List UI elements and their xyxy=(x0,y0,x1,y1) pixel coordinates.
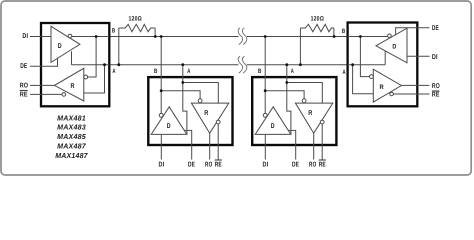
wire DE input U2 xyxy=(184,130,191,159)
border frame xyxy=(1,1,471,175)
wire U4 A to receiver input xyxy=(353,65,374,94)
pin label RO U3 xyxy=(309,161,317,168)
net label A at U4 xyxy=(343,69,346,76)
svg-text:D: D xyxy=(271,123,275,130)
wire DI input U3 xyxy=(264,134,266,159)
wire U2 B branch to receiver xyxy=(161,91,200,99)
wire DI input U2 xyxy=(160,134,162,159)
receiver R triangle U1 xyxy=(55,68,84,101)
svg-text:MAX483: MAX483 xyxy=(57,123,86,132)
svg-text:DI: DI xyxy=(263,161,269,168)
receiver B input bubble U2 xyxy=(198,99,202,103)
net label B at U3 xyxy=(258,68,262,75)
svg-text:R: R xyxy=(308,110,312,117)
node dot U2 A branch xyxy=(181,81,184,84)
transceiver U3 block outline xyxy=(252,77,336,145)
wire U1 B to receiver input xyxy=(88,37,97,78)
receiver B input bubble U3 xyxy=(302,99,306,103)
receiver B input bubble U1 xyxy=(84,75,88,79)
pin label DE U2 xyxy=(188,161,195,168)
cable break squiggle on A bus xyxy=(238,56,247,73)
svg-text:DE: DE xyxy=(432,25,439,32)
receiver enable bubble U1 xyxy=(62,93,66,97)
node dot U3 A branch xyxy=(285,81,288,84)
node dot R1 at B bus xyxy=(154,35,157,38)
driver B output bubble U2 xyxy=(159,113,163,117)
wire RO output U1 xyxy=(30,84,55,86)
driver D label U3 xyxy=(271,123,275,130)
wire U4 A input from bus xyxy=(348,64,386,66)
node dot U2 B branch xyxy=(160,89,163,92)
net label B at U1 xyxy=(112,28,116,35)
wire U1 driver A output drop xyxy=(72,51,110,64)
driver D label U4 xyxy=(392,43,396,50)
node dot U3 B branch xyxy=(264,89,267,92)
wire U2 B drop from bus xyxy=(160,37,162,114)
wire U3 B branch to receiver xyxy=(265,91,304,99)
pin label DI U3 xyxy=(263,161,269,168)
wire RE input U2 xyxy=(217,124,219,160)
svg-text:RO: RO xyxy=(20,83,29,90)
receiver enable bubble U4 xyxy=(390,92,394,96)
resistor R2 120 ohm zigzag body xyxy=(300,24,334,31)
wire U1 driver B output xyxy=(72,36,110,38)
wire U2 A branch to receiver xyxy=(183,83,219,104)
wire B bus right segment xyxy=(247,36,348,38)
resistor R1 right stub to B bus xyxy=(154,28,156,36)
resistor R1 120 ohm zigzag body xyxy=(119,24,155,31)
receiver R triangle U4 xyxy=(373,69,401,102)
svg-text:RE: RE xyxy=(20,91,28,98)
pin label RO U1 xyxy=(20,83,29,90)
wire U4 B to receiver input xyxy=(360,37,370,77)
R1 value label 120 ohm xyxy=(129,16,142,23)
svg-text:R: R xyxy=(71,83,75,90)
node dot U2 A at bus xyxy=(181,63,184,66)
resistor R2 right stub to B bus xyxy=(333,28,335,36)
svg-text:DE: DE xyxy=(20,63,27,70)
pin label RO U2 xyxy=(205,161,213,168)
svg-text:DI: DI xyxy=(432,54,438,61)
pin label DI U1 xyxy=(22,33,28,40)
driver output bubble U4 xyxy=(388,34,392,38)
driver B output bubble U3 xyxy=(263,113,267,117)
svg-text:MAX487: MAX487 xyxy=(57,142,87,151)
pin label DE U3 xyxy=(292,161,299,168)
svg-text:DI: DI xyxy=(22,33,28,40)
svg-text:B: B xyxy=(154,68,158,75)
svg-text:RE: RE xyxy=(215,161,222,168)
svg-text:MAX1487: MAX1487 xyxy=(55,151,88,160)
R2 value label 120 ohm xyxy=(311,16,324,23)
pin label RE U3 with overline xyxy=(319,160,326,168)
receiver R label U1 xyxy=(71,83,75,90)
svg-text:D: D xyxy=(392,43,396,50)
svg-text:120Ω: 120Ω xyxy=(129,16,142,23)
transceiver U2 block outline xyxy=(148,77,232,145)
part number list MAX481 MAX483 MAX485 MAX487 MAX1487 xyxy=(55,114,88,160)
wire DI input U1 xyxy=(30,36,51,38)
pin label DE U1 xyxy=(20,63,27,70)
pin label RE U4 with overline xyxy=(432,91,440,99)
svg-text:A: A xyxy=(112,68,115,75)
wire A bus right segment xyxy=(247,64,348,66)
svg-text:MAX485: MAX485 xyxy=(57,132,87,141)
wire RO output U2 xyxy=(209,133,211,159)
receiver enable bubble U3 xyxy=(320,120,324,124)
pin label RO U4 xyxy=(432,83,440,90)
net label A at U2 xyxy=(187,68,190,75)
receiver enable bubble U2 xyxy=(216,120,220,124)
svg-text:D: D xyxy=(58,43,62,50)
node dot U3 B at bus xyxy=(264,35,267,38)
node dot U4 B xyxy=(359,35,362,38)
svg-text:RO: RO xyxy=(432,83,440,90)
net label A at U1 xyxy=(112,68,115,75)
wire RE input U4 xyxy=(393,93,429,95)
cable break squiggle on B bus xyxy=(238,28,247,45)
svg-text:B: B xyxy=(342,28,346,35)
wire U1 A to receiver input xyxy=(84,65,105,93)
receiver B input bubble U4 xyxy=(370,75,374,79)
driver D triangle U1 xyxy=(51,26,80,62)
wire RE input U1 xyxy=(30,93,62,95)
receiver R label U3 xyxy=(308,110,312,117)
driver output bubble U1 xyxy=(68,34,72,38)
receiver R triangle U2 xyxy=(191,103,228,133)
svg-text:B: B xyxy=(258,68,262,75)
wire B bus left segment xyxy=(109,36,238,38)
node dot U3 A at bus xyxy=(285,63,288,66)
wire A bus left segment xyxy=(109,64,238,66)
svg-text:RE: RE xyxy=(432,92,440,99)
receiver R triangle U3 xyxy=(295,103,332,133)
driver D triangle U2 xyxy=(151,107,187,135)
wire RO output U4 xyxy=(401,84,429,86)
wire U4 driver A output drop xyxy=(384,51,386,65)
wire DI input U4 xyxy=(407,55,430,57)
wire U3 A branch to receiver xyxy=(287,83,323,104)
driver D label U2 xyxy=(167,123,171,130)
svg-text:120Ω: 120Ω xyxy=(311,16,324,23)
transceiver U4 block outline xyxy=(348,23,418,107)
wire RE input U3 xyxy=(321,124,323,160)
resistor R1 left stub to A bus xyxy=(118,28,120,65)
node dot U2 B at bus xyxy=(160,35,163,38)
wire DE input U3 xyxy=(288,130,295,159)
svg-text:R: R xyxy=(380,84,384,91)
svg-text:DE: DE xyxy=(292,161,299,168)
node dot U4 A xyxy=(351,63,354,66)
node dot U1 B xyxy=(95,35,98,38)
node dot R1 at A bus xyxy=(117,63,120,66)
driver D triangle U4 xyxy=(376,28,407,63)
wire U3 A drop from bus xyxy=(287,65,291,135)
resistor R2 left stub to A bus xyxy=(299,28,301,65)
net label B at U4 xyxy=(342,28,346,35)
receiver R label U2 xyxy=(204,110,208,117)
svg-text:RO: RO xyxy=(205,161,213,168)
driver D label U1 xyxy=(58,43,62,50)
node dot R2 at A bus xyxy=(299,63,302,66)
svg-text:DE: DE xyxy=(188,161,195,168)
pin label DI U4 xyxy=(432,54,438,61)
pin label DE U4 xyxy=(432,25,439,32)
wire DE input U1 xyxy=(30,59,58,67)
net label A at U3 xyxy=(291,68,294,75)
pin label RE U1 with overline xyxy=(20,90,28,98)
wire U2 A drop from bus xyxy=(183,65,187,135)
svg-text:MAX481: MAX481 xyxy=(57,114,86,123)
node dot U1 A xyxy=(103,63,106,66)
pin label DI U2 xyxy=(159,161,165,168)
transceiver U1 block outline xyxy=(41,23,109,106)
net label B at U2 xyxy=(154,68,158,75)
svg-text:A: A xyxy=(291,68,294,75)
svg-text:DI: DI xyxy=(159,161,165,168)
wire RO output U3 xyxy=(313,133,315,159)
wire U3 B drop from bus xyxy=(264,37,266,114)
svg-text:R: R xyxy=(204,110,208,117)
receiver R label U4 xyxy=(380,84,384,91)
svg-text:RO: RO xyxy=(309,161,317,168)
driver D triangle U3 xyxy=(255,107,291,135)
svg-text:A: A xyxy=(343,69,346,76)
pin label RE U2 with overline xyxy=(215,160,222,168)
wire U4 B input from bus xyxy=(348,36,388,38)
svg-text:D: D xyxy=(167,123,171,130)
wire DE input U4 xyxy=(396,28,430,35)
svg-text:B: B xyxy=(112,28,116,35)
svg-text:RE: RE xyxy=(319,161,326,168)
node dot R2 at B bus xyxy=(333,35,336,38)
svg-text:A: A xyxy=(187,68,190,75)
